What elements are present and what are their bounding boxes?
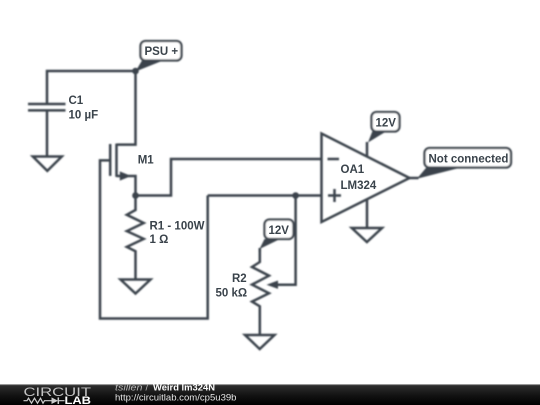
- svg-text:PSU +: PSU +: [145, 46, 179, 58]
- svg-text:http://circuitlab.com/cp5u39b: http://circuitlab.com/cp5u39b: [115, 393, 237, 404]
- svg-text:12V: 12V: [269, 225, 290, 237]
- svg-text:OA1: OA1: [341, 164, 365, 176]
- svg-text:50 kΩ: 50 kΩ: [216, 288, 248, 300]
- svg-text:LM324: LM324: [341, 180, 377, 192]
- svg-text:LAB: LAB: [65, 395, 92, 405]
- svg-text:1 Ω: 1 Ω: [150, 234, 169, 246]
- svg-text:Not connected: Not connected: [429, 154, 509, 166]
- svg-text:10 µF: 10 µF: [69, 110, 99, 122]
- svg-text:R1 - 100W: R1 - 100W: [150, 221, 205, 233]
- svg-text:12V: 12V: [376, 118, 397, 130]
- svg-text:C1: C1: [69, 95, 84, 107]
- svg-text:M1: M1: [138, 155, 155, 167]
- svg-text:R2: R2: [232, 273, 247, 285]
